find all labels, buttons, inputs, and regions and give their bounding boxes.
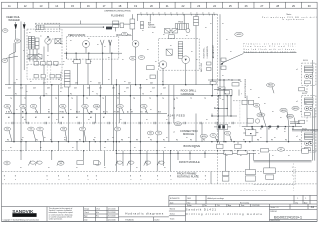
percussion small comps (74, 60, 81, 64)
svg-text:HLu: HLu (96, 216, 99, 218)
svg-text:A3: A3 (311, 205, 315, 209)
svg-text:xx: xx (170, 12, 172, 14)
svg-text:KVL20: KVL20 (302, 93, 307, 95)
pump 2 (182, 56, 190, 64)
inner dashed sub-box (35, 23, 59, 31)
washer quick couplings (filled arrows) (14, 24, 17, 30)
svg-text:xx: xx (20, 167, 22, 169)
compressor line drops (137, 14, 139, 21)
hose group 2 (302, 95, 316, 117)
svg-text:Rev marking: Rev marking (240, 202, 249, 204)
svg-text:xx: xx (147, 49, 149, 51)
pump 1 (159, 61, 167, 69)
svg-text:xx: xx (112, 137, 114, 139)
svg-text:549: 549 (84, 106, 87, 108)
svg-text:560: 560 (149, 133, 152, 135)
svg-text:xx: xx (176, 12, 178, 14)
svg-text:a1: a1 (296, 69, 298, 71)
svg-text:LUBRICATION: LUBRICATION (206, 46, 209, 59)
bus line row 3 (5, 113, 167, 115)
svg-text:xx: xx (146, 119, 148, 121)
svg-text:xx: xx (22, 137, 24, 139)
check valve V1 (100, 40, 104, 46)
svg-text:21.01.2010: 21.01.2010 (108, 216, 116, 218)
svg-text:T3: T3 (142, 94, 144, 96)
svg-text:is synchronous: is synchronous (282, 19, 304, 21)
row balloons (4, 104, 11, 108)
svg-text:P0: P0 (285, 140, 287, 142)
svg-text:Flomatic oil dose inside: Flomatic oil dose inside (244, 43, 296, 46)
svg-text:B1: B1 (252, 129, 254, 131)
lever symbol (6, 56, 18, 58)
svg-text:LS: LS (78, 111, 80, 113)
svg-text:T2: T2 (190, 98, 192, 100)
feed bus right segment (211, 114, 213, 117)
SANDVIK logo (46, 207, 48, 222)
svg-text:xx: xx (88, 38, 90, 40)
svg-text:Sandvik DL421: Sandvik DL421 (186, 207, 217, 211)
svg-text:a: a (4, 179, 5, 181)
valve in box (166, 49, 172, 55)
svg-text:xx: xx (128, 137, 130, 139)
pilot comps (242, 100, 247, 104)
cylinder feed double line (254, 160, 312, 162)
comps feeding right line (247, 119, 253, 124)
svg-text:TM-B015: TM-B015 (125, 219, 134, 221)
svg-text:xx: xx (210, 23, 212, 25)
svg-text:455: 455 (13, 83, 16, 85)
svg-text:xx: xx (163, 34, 165, 36)
right short double line (292, 129, 318, 131)
row5 to module row stems (25, 142, 27, 151)
svg-text:Use led flush with oil hoses.: Use led flush with oil hoses. (244, 48, 297, 51)
svg-text:xx: xx (162, 81, 164, 83)
svg-text:P3: P3 (190, 140, 192, 142)
svg-text:Scale 1 /1: Scale 1 /1 (271, 207, 279, 209)
junction dots (20, 84, 21, 85)
svg-text:xx: xx (97, 44, 99, 46)
svg-text:541: 541 (4, 30, 7, 32)
svg-text:xx: xx (38, 53, 40, 55)
svg-text:B5: B5 (284, 129, 286, 131)
svg-text:568: 568 (255, 105, 258, 107)
flushing filter boxes (113, 21, 119, 24)
valve cluster left (28, 55, 35, 60)
svg-text:B06: B06 (188, 198, 191, 200)
module boundary dashed lines (2, 150, 317, 152)
dark valve cluster (217, 124, 228, 129)
svg-text:MODULE: MODULE (183, 132, 194, 136)
svg-text:463: 463 (87, 87, 90, 89)
manifold row A (34, 62, 39, 66)
svg-text:T3: T3 (204, 98, 206, 100)
svg-text:a1: a1 (296, 136, 298, 138)
svg-text:BOOSTER PRESSURE: BOOSTER PRESSURE (245, 78, 247, 98)
svg-text:403: 403 (139, 87, 142, 89)
svg-text:P9: P9 (271, 140, 273, 142)
svg-text:564: 564 (6, 163, 9, 165)
svg-text:P0: P0 (7, 140, 9, 142)
svg-text:HLu: HLu (96, 212, 99, 214)
svg-text:462: 462 (98, 83, 101, 85)
svg-text:554: 554 (6, 129, 9, 131)
extra row5 junction dots (20, 141, 21, 142)
pump main (132, 41, 139, 48)
title block (2, 191, 318, 222)
dashed link (28, 63, 65, 65)
balloon GA140 (174, 122, 181, 126)
svg-text:xx: xx (206, 119, 208, 121)
svg-text:xx: xx (60, 91, 62, 93)
svg-text:a: a (59, 179, 60, 181)
svg-text:548: 548 (61, 106, 64, 108)
svg-text:B2: B2 (174, 107, 176, 109)
svg-text:xx: xx (164, 12, 166, 14)
junction dots right-mid (211, 95, 212, 96)
svg-text:1: 1 (305, 198, 306, 200)
BT rect (36, 25, 44, 30)
svg-text:xx: xx (226, 39, 228, 41)
svg-text:P500: P500 (178, 21, 184, 23)
svg-text:xx: xx (44, 137, 46, 139)
svg-text:xx: xx (222, 75, 224, 77)
small comps below (147, 66, 155, 70)
product title cell (185, 204, 187, 221)
svg-text:AIR FLOW: AIR FLOW (200, 63, 203, 72)
svg-text:xx: xx (23, 50, 25, 52)
balloons mid-right (224, 131, 230, 135)
svg-text:xx: xx (76, 167, 78, 169)
svg-text:xx: xx (92, 91, 94, 93)
supply lines (44, 23, 135, 25)
bus line row 4 dashed (5, 122, 247, 124)
svg-text:561: 561 (157, 133, 160, 135)
svg-text:B3: B3 (48, 112, 50, 114)
boxes under row5 (217, 144, 224, 148)
svg-text:P2: P2 (70, 94, 72, 96)
svg-text:xx: xx (136, 167, 138, 169)
svg-text:xx: xx (284, 131, 286, 133)
svg-text:xx: xx (230, 51, 232, 53)
svg-text:xx: xx (96, 109, 98, 111)
oil tank dashed region (27, 29, 62, 79)
svg-text:xx: xx (258, 97, 260, 99)
svg-text:xx: xx (56, 119, 58, 121)
svg-text:423: 423 (163, 87, 166, 89)
svg-text:xx: xx (30, 81, 32, 83)
svg-text:P5: P5 (79, 140, 81, 142)
bus line row 1 (5, 84, 213, 86)
svg-text:B9: B9 (131, 112, 133, 114)
svg-text:xx: xx (104, 147, 106, 149)
svg-text:xx: xx (260, 137, 262, 139)
svg-text:xx: xx (170, 30, 172, 32)
svg-text:P7: P7 (107, 140, 109, 142)
tank interior drops (29, 49, 31, 62)
svg-text:P3: P3 (118, 94, 120, 96)
svg-text:553: 553 (142, 106, 145, 108)
svg-text:B0: B0 (8, 112, 10, 114)
svg-text:P4: P4 (203, 140, 205, 142)
svg-text:xx: xx (104, 167, 106, 169)
svg-text:B6: B6 (292, 129, 294, 131)
svg-text:a: a (88, 179, 89, 181)
svg-text:T5: T5 (86, 98, 88, 100)
svg-text:B0: B0 (244, 129, 246, 131)
svg-text:xx: xx (264, 103, 266, 105)
filter column (35, 38, 39, 49)
svg-text:P9: P9 (136, 140, 138, 142)
svg-text:Rev: Rev (188, 202, 191, 204)
svg-text:xx: xx (190, 12, 192, 14)
svg-text:xx: xx (140, 12, 142, 14)
svg-text:xx: xx (48, 167, 50, 169)
svg-text:xx: xx (152, 32, 154, 34)
svg-text:464: 464 (150, 83, 153, 85)
dashed module vertical boundary (217, 14, 219, 184)
svg-text:xx: xx (208, 12, 210, 14)
right column box hatches (304, 67, 313, 69)
svg-text:xx: xx (305, 103, 307, 105)
svg-text:P2: P2 (176, 140, 178, 142)
percussion dashed box (67, 36, 119, 59)
svg-text:P1: P1 (174, 117, 176, 119)
bus line row 5 (5, 141, 312, 143)
balloons above right line (257, 113, 265, 117)
svg-text:xx: xx (70, 109, 72, 111)
svg-text:xx: xx (166, 119, 168, 121)
svg-text:423: 423 (33, 87, 36, 89)
svg-text:xx: xx (16, 109, 18, 111)
svg-text:Copyright © Sandvik Mining and: Copyright © Sandvik Mining and Construct… (3, 218, 39, 221)
right bottom vertical pairs (222, 171, 229, 175)
svg-text:ECN-E0211: ECN-E0211 (170, 198, 179, 200)
riser fittings (210, 82, 216, 85)
svg-text:xx: xx (146, 12, 148, 14)
row3 junction dots (13, 113, 14, 114)
svg-text:457: 457 (43, 83, 46, 85)
svg-text:xx: xx (124, 81, 126, 83)
svg-text:P2: P2 (36, 140, 38, 142)
svg-text:xx: xx (134, 147, 136, 149)
vertical wires (13, 43, 15, 142)
svg-text:P: P (225, 94, 226, 96)
row4 tick markers (11, 122, 13, 124)
svg-text:COMPRESSOR CONTROL(OPTION): COMPRESSOR CONTROL(OPTION) (104, 11, 131, 13)
svg-text:xx: xx (64, 137, 66, 139)
front module top rail (116, 152, 256, 154)
hatch strip (178, 42, 183, 59)
svg-text:P8: P8 (114, 111, 116, 113)
svg-text:xx: xx (226, 155, 228, 157)
svg-text:413: 413 (152, 87, 155, 89)
svg-text:403: 403 (8, 87, 11, 89)
gauge balloon (2, 29, 8, 33)
dashed pilot line (233, 100, 254, 102)
svg-text:xx: xx (63, 61, 65, 63)
left drop (9, 52, 16, 55)
svg-text:T9: T9 (149, 98, 151, 100)
svg-text:xx: xx (155, 61, 157, 63)
svg-text:xx: xx (24, 119, 26, 121)
svg-text:BG00224103: BG00224103 (271, 220, 281, 222)
svg-text:T1: T1 (106, 111, 108, 113)
riser top row (208, 79, 241, 81)
svg-text:xx: xx (228, 79, 230, 81)
balloon 569 (14, 39, 20, 43)
svg-text:xx: xx (202, 12, 204, 14)
manifold row B (34, 74, 38, 78)
svg-text:xx: xx (104, 46, 106, 48)
top header line (137, 13, 218, 15)
svg-text:KVL30: KVL30 (302, 128, 307, 130)
svg-text:xx: xx (164, 147, 166, 149)
svg-text:B8: B8 (117, 112, 119, 114)
svg-text:xx: xx (120, 119, 122, 121)
svg-text:FLUSHING: FLUSHING (111, 13, 124, 17)
svg-text:P4: P4 (64, 140, 66, 142)
svg-text:B2: B2 (260, 129, 262, 131)
svg-text:T1: T1 (176, 98, 178, 100)
svg-text:T6: T6 (102, 98, 104, 100)
svg-text:a: a (96, 179, 97, 181)
svg-text:xx: xx (124, 91, 126, 93)
svg-text:551: 551 (131, 58, 134, 60)
svg-text:xx: xx (26, 91, 28, 93)
svg-text:T4: T4 (219, 98, 221, 100)
svg-text:xx: xx (61, 43, 63, 45)
compressor unit tall box (130, 19, 135, 29)
svg-text:P0: P0 (150, 140, 152, 142)
svg-text:xx: xx (166, 137, 168, 139)
svg-text:557: 557 (39, 129, 42, 131)
svg-text:xx: xx (274, 137, 276, 139)
balloon near riser (235, 32, 243, 36)
svg-text:A140 FEED: A140 FEED (168, 114, 186, 118)
svg-text:xx: xx (58, 79, 60, 81)
svg-text:T0: T0 (162, 98, 164, 100)
pump with arrow (45, 38, 51, 44)
svg-text:a: a (205, 179, 206, 181)
svg-text:a: a (130, 179, 131, 181)
svg-text:B3: B3 (268, 129, 270, 131)
svg-text:xx: xx (258, 153, 260, 155)
svg-text:12.02.2016: 12.02.2016 (108, 219, 116, 221)
top grid reference strip (2, 2, 318, 8)
svg-text:Chg: Chg (295, 202, 298, 204)
svg-text:AIR WATER KIT: AIR WATER KIT (212, 44, 215, 58)
svg-text:Note:: Note: (287, 13, 292, 16)
svg-text:xx: xx (305, 91, 307, 93)
svg-text:569: 569 (16, 41, 19, 43)
svg-text:CARRIAGE: CARRIAGE (181, 92, 195, 96)
svg-text:T2: T2 (96, 94, 98, 96)
svg-text:463: 463 (128, 83, 131, 85)
svg-text:12.02.2016: 12.02.2016 (252, 205, 260, 207)
balloon leader lines (9, 108, 12, 114)
svg-text:453: 453 (74, 87, 77, 89)
drops through module rows (115, 151, 117, 172)
svg-text:xx: xx (164, 167, 166, 169)
svg-text:T1: T1 (24, 98, 26, 100)
svg-text:xx: xx (40, 147, 42, 149)
svg-text:Chk: Chk (217, 205, 220, 207)
svg-text:xx: xx (72, 61, 74, 63)
svg-text:xx: xx (272, 111, 274, 113)
terminal ladder strip (65, 71, 71, 74)
mid-right mini row (214, 108, 227, 110)
svg-text:572: 572 (212, 135, 215, 137)
svg-text:T8: T8 (133, 98, 135, 100)
svg-text:xx: xx (148, 137, 150, 139)
svg-text:B4: B4 (276, 129, 278, 131)
svg-text:a: a (69, 179, 70, 181)
svg-text:413: 413 (20, 87, 23, 89)
svg-text:KVL10: KVL10 (303, 60, 308, 62)
svg-text:xx: xx (90, 61, 92, 63)
svg-text:xx: xx (88, 119, 90, 121)
mid-right extra stubs (214, 88, 232, 90)
dotted row above revision table (240, 190, 266, 192)
valve cluster right (246, 130, 256, 136)
dark inline component (106, 27, 112, 30)
svg-text:443: 443 (60, 87, 63, 89)
svg-text:a: a (171, 179, 172, 181)
svg-text:FRONT MODULE: FRONT MODULE (179, 160, 200, 164)
svg-text:550: 550 (119, 106, 122, 108)
svg-text:xx: xx (240, 155, 242, 157)
svg-text:xx: xx (297, 123, 299, 125)
svg-text:556: 556 (30, 129, 33, 131)
svg-text:T4: T4 (71, 98, 73, 100)
svg-text:xx: xx (196, 59, 198, 61)
svg-text:a: a (157, 179, 158, 181)
svg-text:a: a (196, 179, 197, 181)
percussion inner bus (64, 52, 122, 54)
svg-text:547: 547 (32, 106, 35, 108)
svg-text:P1: P1 (15, 94, 17, 96)
air/water filter boxes (141, 21, 144, 24)
leader arrow (225, 54, 243, 62)
svg-text:xx: xx (191, 51, 193, 53)
svg-text:xx: xx (300, 111, 302, 113)
svg-text:xx: xx (186, 137, 188, 139)
fittings on right line (261, 126, 263, 128)
svg-text:xx: xx (10, 147, 12, 149)
svg-text:ROCK DRILL: ROCK DRILL (204, 47, 206, 58)
svg-text:xx: xx (205, 27, 207, 29)
bus line row 2 (5, 95, 232, 97)
svg-text:xx: xx (213, 12, 215, 14)
svg-text:Added port markings: Added port markings (208, 197, 225, 200)
svg-text:1: 1 (297, 198, 298, 200)
svg-text:565: 565 (59, 163, 62, 165)
svg-text:xx: xx (108, 57, 110, 59)
svg-text:559: 559 (81, 129, 84, 131)
svg-text:PB: PB (60, 111, 62, 113)
svg-text:xx: xx (240, 81, 242, 83)
svg-text:T: T (241, 94, 242, 96)
svg-text:B: B (6, 111, 7, 113)
module row stems right (225, 153, 227, 171)
dotted drain verticals (46, 60, 48, 85)
svg-text:558: 558 (62, 129, 65, 131)
svg-text:xx: xx (150, 109, 152, 111)
top of front module row (224, 151, 232, 155)
valve X box (55, 39, 61, 44)
svg-text:ROTATING PLATE: ROTATING PLATE (177, 175, 199, 179)
svg-text:xx: xx (250, 89, 252, 91)
